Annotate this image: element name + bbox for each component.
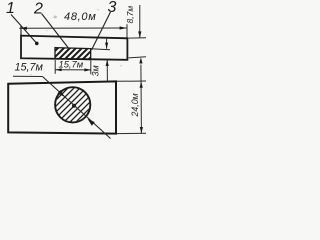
48,0м right arrow [120,26,127,29]
svg-text:15,7м: 15,7м [15,61,44,73]
3м dimension upper arrow (down) [106,39,108,49]
svg-text:3: 3 [108,0,117,16]
diameter arrow upper (points to centre) [57,90,64,97]
circle center dot [72,104,76,108]
diameter leader shelf [13,75,43,77]
diameter leader diagonal [43,77,111,139]
left edge extension up to dimension line [20,26,22,36]
svg-text:15,7м: 15,7м [59,58,84,69]
svg-text:1: 1 [6,0,15,17]
hole circle hatched [55,87,90,122]
leader 1 end dot [35,42,39,46]
leader from label 1 [11,15,37,44]
plan top edge extension [117,80,146,82]
3м dimension lower arrow (up) [106,60,108,81]
24,0м dimension line [140,65,143,134]
48,0м left arrow [20,27,27,30]
svg-text:2: 2 [33,1,43,18]
svg-text:48,0м: 48,0м [64,11,96,23]
ship plan view outline [8,81,116,133]
svg-text:24,0м: 24,0м [130,93,140,117]
extension line right of 48,0м [126,24,128,37]
plan bottom edge extension [117,132,146,134]
diameter arrow lower (points to centre) [88,119,95,126]
svg-text:3м: 3м [91,65,101,76]
pontoon side view outline [21,36,127,60]
8,7м dimension [129,37,147,39]
leader from label 3 [92,12,111,50]
15,7м dimension of superstructure [54,60,56,74]
scan specks [30,9,122,75]
superstructure top line extended right [91,49,110,50]
svg-text:8,7м: 8,7м [125,6,135,24]
superstructure hatched block [44,45,103,62]
dimension line 48,0м [19,27,126,29]
leader from label 2 [42,14,69,48]
